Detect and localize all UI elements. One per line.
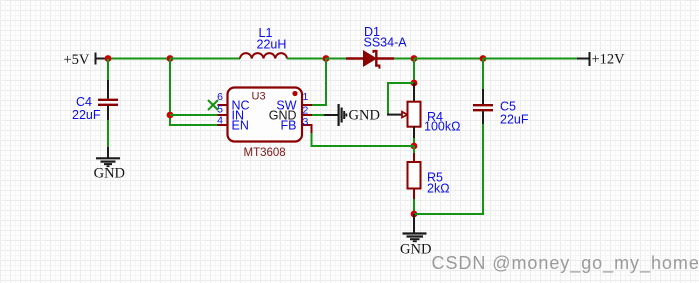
- wire wiper loop: [388, 83, 414, 115]
- wire R4 to J8: [413, 138, 415, 146]
- svg-text:22uF: 22uF: [500, 113, 529, 127]
- net flag +5V: [64, 52, 109, 68]
- pin 1 SW stub: [302, 104, 312, 106]
- junction J7: [411, 80, 418, 87]
- svg-text:U3: U3: [252, 90, 266, 102]
- wire FB to J8: [312, 133, 415, 146]
- wire J8 to R5: [413, 146, 415, 153]
- wire J3 to IN pin: [170, 114, 218, 116]
- junction J2: [167, 55, 174, 62]
- svg-text:22uH: 22uH: [257, 38, 287, 52]
- ground GND at J9: [400, 214, 431, 258]
- svg-text:MT3608: MT3608: [244, 147, 286, 159]
- resistor R5: [408, 153, 421, 199]
- wire R5 to J9: [413, 199, 415, 214]
- pin 4 EN stub: [218, 124, 228, 126]
- junction J1: [105, 55, 112, 62]
- junction J3: [167, 112, 174, 119]
- svg-text:SS34-A: SS34-A: [364, 36, 408, 50]
- svg-text:+5V: +5V: [64, 52, 90, 68]
- net flag +12V: [577, 51, 625, 67]
- pin 3 FB stub: [302, 125, 312, 133]
- wire D1 to J5: [394, 58, 414, 60]
- wire J2 down to IN/EN: [170, 59, 218, 126]
- wire C5 bottom run: [414, 124, 483, 214]
- U3 pin1 marker dot: [292, 91, 297, 96]
- wire J4 to SW pin: [312, 59, 326, 106]
- ground GND at C4: [94, 147, 125, 181]
- svg-text:1: 1: [303, 91, 309, 103]
- svg-text:22uF: 22uF: [72, 108, 101, 122]
- wire L1 to J4: [287, 58, 326, 60]
- wire C5 top: [482, 59, 484, 90]
- pin 2 GND stub: [302, 114, 312, 116]
- svg-text:C4: C4: [76, 95, 92, 109]
- capacitor C4: [98, 80, 118, 120]
- wire J5 to J6: [414, 58, 483, 60]
- svg-text:2: 2: [303, 105, 309, 117]
- wire J6 to +12V: [483, 58, 577, 60]
- svg-text:C5: C5: [500, 100, 516, 114]
- capacitor C5: [473, 89, 493, 124]
- wire C4 top: [107, 59, 109, 81]
- pin 6 NC stub: [218, 104, 228, 106]
- svg-text:100kΩ: 100kΩ: [424, 120, 460, 134]
- svg-text:EN: EN: [232, 119, 249, 133]
- diode D1 SS34-A: [346, 50, 394, 69]
- svg-text:FB: FB: [281, 119, 297, 133]
- svg-text:GND: GND: [94, 165, 125, 181]
- no-connect X on pin 6: [208, 100, 218, 110]
- potentiometer R4: [387, 83, 421, 138]
- svg-text:GND: GND: [400, 242, 431, 258]
- svg-text:CSDN @money_go_my_home: CSDN @money_go_my_home: [432, 253, 699, 274]
- svg-text:3: 3: [303, 116, 309, 128]
- svg-text:4: 4: [217, 114, 223, 126]
- wire J2 to L1: [170, 58, 240, 60]
- IC U3 MT3608: [228, 88, 303, 142]
- junction J4: [323, 55, 330, 62]
- inductor L1: [240, 53, 287, 58]
- junction J8: [411, 143, 418, 150]
- svg-text:GND: GND: [349, 108, 380, 124]
- pin 5 IN stub: [218, 114, 228, 116]
- wire C4 bottom: [107, 120, 109, 147]
- wire +5V rail J1 to J2: [108, 58, 170, 60]
- ground flag GND at pin 2: [324, 104, 380, 126]
- junction J6: [480, 55, 487, 62]
- svg-text:2kΩ: 2kΩ: [427, 182, 450, 196]
- wire pin2 to GND flag: [312, 114, 324, 116]
- wire J5 down to J7: [413, 59, 415, 84]
- junction J5: [411, 55, 418, 62]
- svg-text:+12V: +12V: [592, 51, 626, 67]
- wire J4 to D1: [326, 58, 346, 60]
- junction J9: [411, 211, 418, 218]
